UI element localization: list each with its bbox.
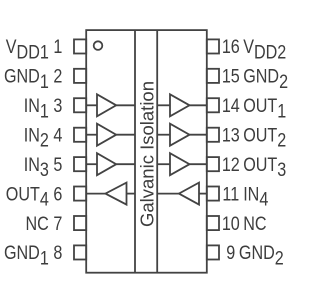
pin 1 label VDD1 (6, 36, 63, 63)
wire pin5 to buffer IN3 (86, 163, 97, 165)
pin 7 label NC (26, 213, 63, 235)
svg-text:OUT3: OUT3 (243, 154, 286, 181)
pin 10 label NC (243, 213, 267, 235)
pin 15 box (207, 69, 219, 83)
svg-text:VDD1 1: VDD1 1 (6, 36, 63, 63)
pin 14 label OUT1 (243, 95, 286, 122)
pin 8 label GND1 (4, 242, 63, 269)
wire barrier to buffer OUT1 (157, 104, 170, 106)
wire buffer IN2 to barrier (116, 134, 135, 136)
pin 10 box (207, 216, 219, 230)
wire buffer OUT4 to barrier (127, 193, 136, 195)
pin 9 box (207, 245, 219, 259)
pin 8 box (74, 245, 86, 259)
pin 12 label OUT3 (243, 154, 286, 181)
svg-text:GND1 2: GND1 2 (4, 65, 62, 92)
pin 16 label VDD2 (243, 36, 286, 63)
buffer IN2 (97, 124, 116, 146)
pin 4 label IN2 (24, 124, 63, 151)
wire buffer OUT2 to pin13 (190, 134, 207, 136)
pin 5 box (74, 157, 86, 171)
pin 2 box (74, 69, 86, 83)
isolation barrier left bar (134, 30, 136, 273)
pin 9 number (226, 242, 235, 264)
svg-text:13: 13 (222, 124, 240, 146)
svg-text:GND1 8: GND1 8 (4, 242, 63, 269)
buffer OUT2 (170, 124, 190, 146)
pin 13 label OUT2 (243, 124, 286, 151)
pin 9 label GND2 (239, 242, 284, 269)
wire buffer OUT3 to pin12 (190, 163, 207, 165)
wire barrier to buffer OUT3 (157, 163, 170, 165)
svg-text:NC 7: NC 7 (26, 213, 63, 235)
pin 11 label IN4 (243, 183, 268, 210)
wire buffer IN4 to pin11 (199, 193, 207, 195)
wire buffer IN3 to barrier (116, 163, 135, 165)
svg-text:VDD2: VDD2 (243, 36, 286, 63)
svg-text:IN2 4: IN2 4 (24, 124, 63, 151)
svg-text:OUT1: OUT1 (243, 95, 286, 122)
buffer OUT4 (105, 183, 126, 205)
svg-text:GND2: GND2 (243, 65, 288, 92)
pin 1 box (74, 39, 86, 53)
svg-text:IN3 5: IN3 5 (24, 154, 63, 181)
svg-text:12: 12 (222, 154, 240, 176)
pin 6 label OUT4 (6, 183, 63, 210)
pin 10 number (222, 213, 240, 235)
svg-text:OUT2: OUT2 (243, 124, 286, 151)
pin 2 label GND1 (4, 65, 62, 92)
pin 6 box (74, 187, 86, 201)
buffer IN3 (97, 153, 116, 175)
pin 12 box (207, 157, 219, 171)
buffer IN4 (179, 183, 199, 205)
pin 15 number (222, 65, 240, 87)
pin 11 box (207, 187, 219, 201)
wire pin4 to buffer IN2 (86, 134, 97, 136)
pin 13 box (207, 128, 219, 142)
pin 5 label IN3 (24, 154, 63, 181)
wire barrier to buffer OUT2 (157, 134, 170, 136)
pin 12 number (222, 154, 240, 176)
svg-text:15: 15 (222, 65, 240, 87)
wire buffer IN1 to barrier (116, 104, 135, 106)
pin 3 label IN1 (24, 95, 63, 122)
pin 14 number (222, 95, 240, 117)
buffer OUT3 (170, 153, 190, 175)
buffer IN1 (97, 94, 116, 116)
svg-text:NC: NC (243, 213, 267, 235)
svg-text:14: 14 (222, 95, 240, 117)
isolation barrier right bar (156, 30, 158, 273)
svg-text:IN1 3: IN1 3 (24, 95, 63, 122)
IC body U1 outline (86, 30, 207, 273)
svg-text:11: 11 (222, 183, 239, 205)
buffer OUT1 (170, 94, 190, 116)
svg-text:10: 10 (222, 213, 240, 235)
svg-text:16: 16 (222, 36, 240, 58)
svg-text:IN4: IN4 (243, 183, 268, 210)
pin 16 box (207, 39, 219, 53)
pin 16 number (222, 36, 240, 58)
wire pin3 to buffer IN1 (86, 104, 97, 106)
pin 4 box (74, 128, 86, 142)
pin 1 indicator circle (94, 41, 103, 50)
wire buffer OUT1 to pin14 (190, 104, 207, 106)
wire barrier to buffer IN4 (157, 193, 179, 195)
pin 15 label GND2 (243, 65, 288, 92)
svg-text:9: 9 (226, 242, 235, 264)
pin 13 number (222, 124, 240, 146)
pin 3 box (74, 98, 86, 112)
svg-text:GND2: GND2 (239, 242, 284, 269)
wire pin6 to buffer OUT4 (86, 193, 105, 195)
pin 7 box (74, 216, 86, 230)
pin 14 box (207, 98, 219, 112)
svg-text:OUT4 6: OUT4 6 (6, 183, 63, 210)
svg-text:Galvanic Isolation: Galvanic Isolation (137, 81, 158, 227)
pin 11 number (222, 183, 239, 205)
